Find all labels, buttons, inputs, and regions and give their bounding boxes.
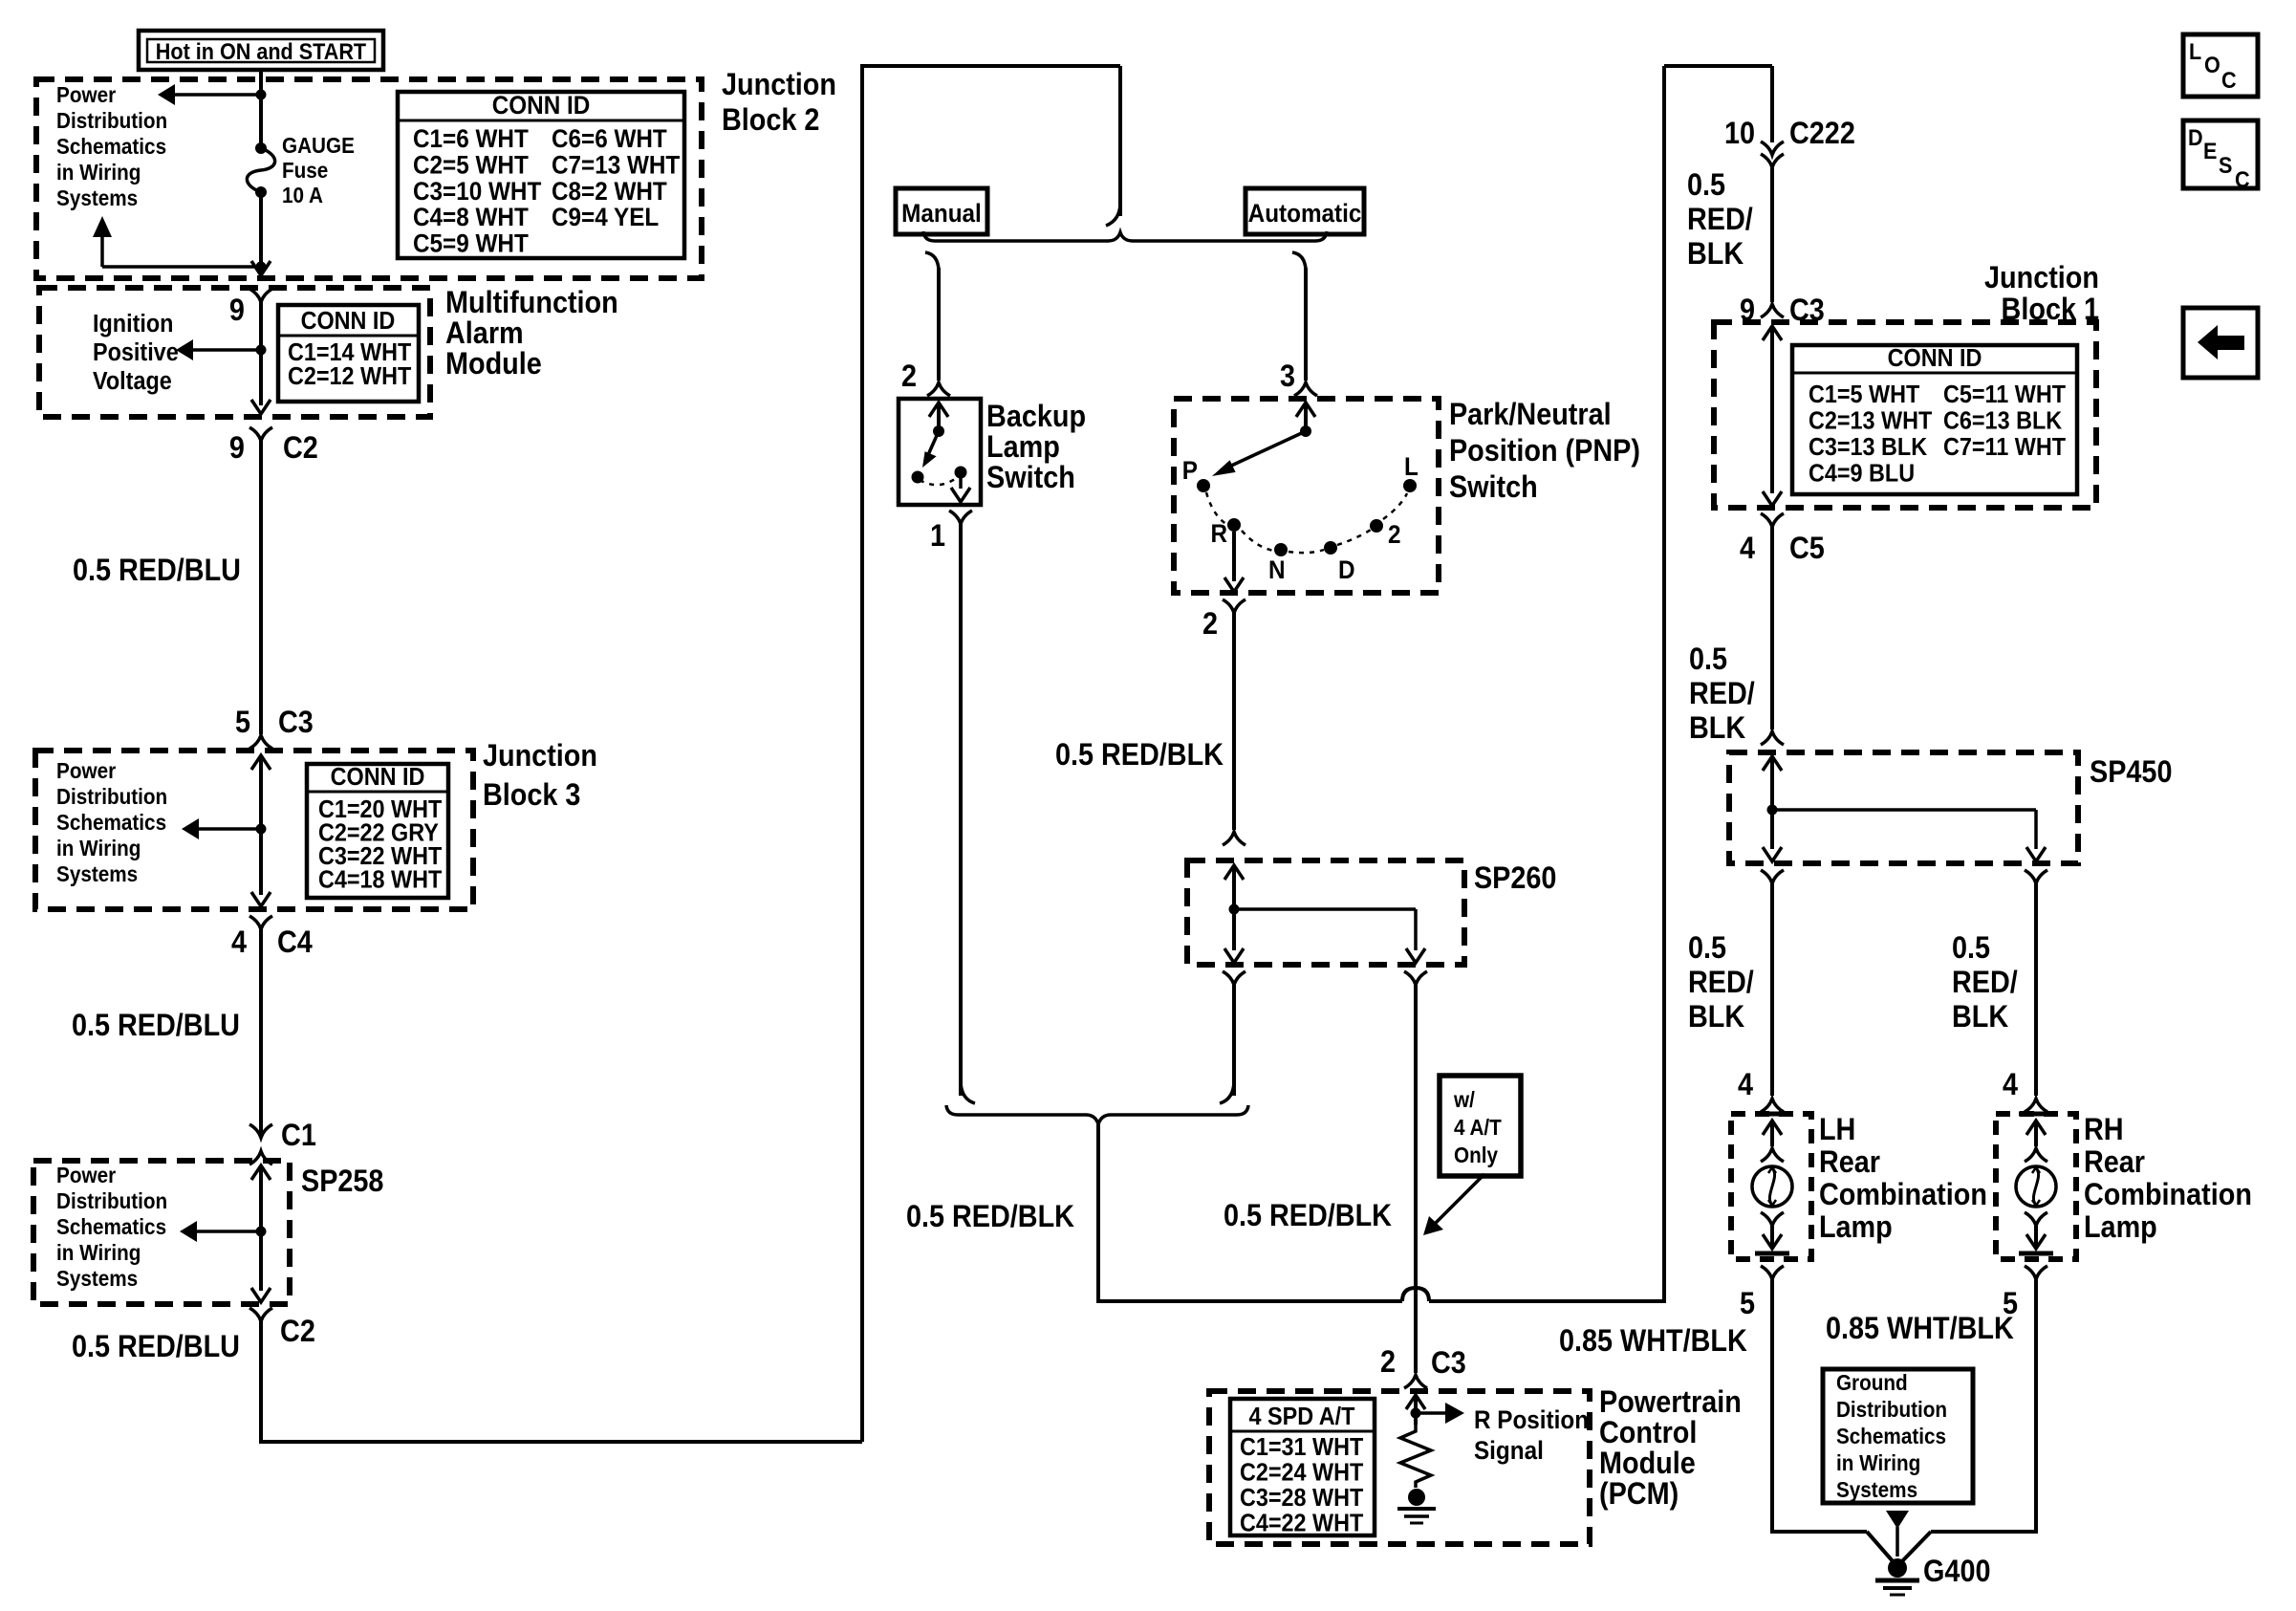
svg-text:2: 2: [901, 359, 917, 394]
svg-text:Combination: Combination: [1819, 1178, 1987, 1212]
svg-text:0.5 RED/BLK: 0.5 RED/BLK: [1224, 1199, 1392, 1233]
svg-text:C: C: [2221, 67, 2237, 93]
label box Manual: [896, 188, 987, 234]
svg-text:C7=11 WHT: C7=11 WHT: [1943, 434, 2066, 461]
multifunction alarm module dashed box: [39, 288, 430, 417]
label SP260: [1474, 861, 1556, 896]
svg-text:0.5 RED/BLK: 0.5 RED/BLK: [1055, 738, 1224, 773]
wire drop to option brace: [1106, 66, 1120, 226]
label 0.5 RED/BLK (right): [1224, 1199, 1392, 1233]
svg-text:RH: RH: [2084, 1113, 2124, 1147]
LH lamp bulb symbol: [1752, 1114, 1792, 1253]
PNP contact R: [1210, 518, 1241, 548]
svg-text:CONN ID: CONN ID: [301, 308, 396, 335]
wire C222 to C3: [1770, 167, 1774, 302]
svg-text:SP258: SP258: [301, 1165, 383, 1199]
svg-text:C4=9 BLU: C4=9 BLU: [1809, 460, 1915, 487]
splice SP450 dashed box: [1729, 752, 2078, 863]
svg-text:CONN ID: CONN ID: [331, 764, 425, 791]
backup switch output: [951, 472, 970, 502]
svg-text:N: N: [1268, 556, 1286, 584]
label Junction Block 1: [1984, 261, 2099, 327]
label SP450: [2090, 755, 2172, 790]
PNP contact L: [1403, 453, 1419, 492]
svg-text:C6=6 WHT: C6=6 WHT: [552, 125, 667, 153]
svg-text:Power: Power: [56, 758, 117, 783]
svg-text:Lamp: Lamp: [1819, 1210, 1893, 1245]
svg-text:0.5 RED/BLU: 0.5 RED/BLU: [72, 1009, 240, 1043]
svg-text:LH: LH: [1819, 1113, 1855, 1147]
svg-text:Block 1: Block 1: [2002, 293, 2099, 327]
backup switch right contact: [955, 467, 967, 479]
SP260 right output chevron: [1404, 971, 1427, 985]
node junction dot SP258: [256, 1227, 267, 1237]
SP258 exit arrow: [251, 1288, 271, 1302]
option split brace: [923, 231, 1327, 241]
connector 4 C4: [231, 916, 313, 959]
svg-text:(PCM): (PCM): [1599, 1477, 1679, 1512]
node junction dot lower JB2: [256, 262, 267, 272]
svg-text:C3: C3: [278, 706, 314, 740]
svg-text:C2: C2: [280, 1315, 315, 1349]
svg-text:Powertrain: Powertrain: [1599, 1385, 1742, 1420]
svg-text:C2=5 WHT: C2=5 WHT: [413, 151, 529, 179]
svg-text:C: C: [2235, 166, 2250, 192]
wire C2 to C3: [259, 441, 263, 734]
arrow to ignition positive voltage: [176, 339, 261, 360]
PNP dashed contact arc: [1206, 492, 1407, 553]
junction block 1 dashed box: [1714, 322, 2096, 508]
svg-text:C5=11 WHT: C5=11 WHT: [1943, 381, 2066, 408]
label LH Rear Combination Lamp: [1819, 1113, 1987, 1245]
node SP260 splice dot: [1229, 904, 1240, 915]
connector pin 5 RH lamp: [2003, 1266, 2047, 1320]
note Power Distribution Schematics (JB3): [56, 758, 167, 886]
label Junction Block 2: [722, 68, 836, 138]
CONN ID table alarm module: [278, 305, 419, 402]
label GAUGE Fuse 10 A: [282, 133, 355, 207]
label Park/Neutral Position (PNP) Switch: [1449, 398, 1640, 505]
svg-text:0.85 WHT/BLK: 0.85 WHT/BLK: [1559, 1324, 1747, 1359]
svg-text:Park/Neutral: Park/Neutral: [1449, 398, 1612, 432]
svg-text:1: 1: [930, 519, 945, 554]
svg-text:C5=9 WHT: C5=9 WHT: [413, 229, 529, 257]
connector 2 C3 PCM: [1380, 1345, 1466, 1388]
PNP contact P: [1182, 457, 1210, 492]
PNP R output wire: [1224, 532, 1244, 592]
svg-text:Distribution: Distribution: [56, 1188, 167, 1213]
wire SP260 right to PCM: [1414, 985, 1418, 1373]
connector pin 2 backup lamp switch: [901, 359, 950, 396]
svg-text:in Wiring: in Wiring: [56, 1240, 141, 1265]
wire C5 to SP450: [1770, 527, 1774, 729]
label RH Rear Combination Lamp: [2084, 1113, 2252, 1245]
svg-text:Distribution: Distribution: [56, 784, 167, 809]
svg-text:0.5: 0.5: [1952, 931, 1990, 966]
label SP258: [301, 1165, 383, 1199]
arrow up to Systems text: [93, 216, 261, 267]
svg-text:5: 5: [1740, 1287, 1755, 1321]
Hot in ON and START box: [139, 31, 383, 70]
node SP450 splice dot: [1767, 805, 1778, 816]
svg-text:C2=12 WHT: C2=12 WHT: [288, 363, 411, 390]
svg-text:Combination: Combination: [2084, 1178, 2252, 1212]
wire backup switch to merge brace: [961, 524, 975, 1103]
svg-text:Block 3: Block 3: [483, 778, 580, 813]
svg-text:Systems: Systems: [56, 185, 138, 210]
label 0.5 RED/BLU lower: [72, 1330, 240, 1364]
label G400: [1923, 1555, 1990, 1589]
svg-text:Distribution: Distribution: [1836, 1397, 1947, 1422]
svg-text:Systems: Systems: [1836, 1477, 1917, 1502]
connector 9 C2: [229, 427, 318, 465]
SP450 entry chevron: [1761, 731, 1784, 771]
connector 5 C3: [235, 706, 314, 749]
merge brace: [946, 1105, 1248, 1124]
svg-text:CONN ID: CONN ID: [492, 92, 591, 120]
svg-text:C1=6 WHT: C1=6 WHT: [413, 125, 529, 153]
svg-text:C4=18 WHT: C4=18 WHT: [318, 866, 442, 893]
svg-text:CONN ID: CONN ID: [1888, 345, 1982, 372]
SP450 right output chevron: [2025, 870, 2047, 883]
svg-text:E: E: [2203, 138, 2217, 163]
svg-text:C1=31 WHT: C1=31 WHT: [1240, 1434, 1363, 1461]
label 0.5 RED/BLU upper: [73, 554, 241, 588]
note Power Distribution Schematics (JB2): [56, 82, 167, 210]
svg-text:Rear: Rear: [1819, 1145, 1880, 1180]
svg-text:SP260: SP260: [1474, 861, 1556, 896]
SP450 internal wires: [1763, 756, 2046, 861]
svg-text:Junction: Junction: [722, 68, 836, 102]
label 0.85 WHT/BLK (RH): [1826, 1312, 2014, 1346]
connector pin 1 backup lamp switch: [930, 511, 972, 553]
4 SPD A/T table: [1230, 1399, 1375, 1537]
svg-text:Schematics: Schematics: [56, 1214, 166, 1239]
connector pin 4 LH lamp: [1738, 1068, 1784, 1112]
svg-text:D: D: [1338, 556, 1355, 584]
arrow R position signal: [1416, 1403, 1464, 1424]
arrow to power distribution SP258: [180, 1221, 261, 1242]
svg-text:4 SPD A/T: 4 SPD A/T: [1249, 1404, 1355, 1430]
PCM entry arrow: [1406, 1395, 1425, 1425]
svg-text:5: 5: [235, 706, 250, 740]
connector pin 3 PNP switch: [1280, 359, 1317, 396]
park/neutral position switch dashed box: [1174, 399, 1439, 593]
connector chevron into alarm module: [249, 289, 272, 302]
note Ignition Positive Voltage: [93, 311, 179, 395]
svg-text:0.5: 0.5: [1687, 168, 1725, 203]
label Powertrain Control Module (PCM): [1599, 1385, 1742, 1512]
svg-text:Switch: Switch: [1449, 470, 1538, 505]
label Multifunction Alarm Module: [445, 286, 618, 381]
svg-text:C4=8 WHT: C4=8 WHT: [413, 204, 529, 231]
svg-text:Block 2: Block 2: [722, 103, 819, 138]
JB3 exit arrow: [251, 892, 271, 906]
svg-text:0.5 RED/BLU: 0.5 RED/BLU: [72, 1330, 240, 1364]
svg-text:BLK: BLK: [1687, 237, 1744, 272]
arrow w/4AT to wire: [1423, 1174, 1484, 1235]
powertrain control module dashed box: [1209, 1391, 1590, 1544]
svg-text:S: S: [2219, 152, 2232, 178]
svg-text:4: 4: [2003, 1068, 2018, 1102]
wire PNP pin2 to SP260: [1232, 613, 1236, 830]
svg-text:2: 2: [1388, 521, 1401, 549]
svg-text:Power: Power: [56, 1163, 117, 1187]
wire top rail right: [1664, 66, 1772, 142]
SP260 left output chevron: [1223, 971, 1245, 985]
wire hop over PCM wire: [1402, 1288, 1429, 1301]
svg-text:SP450: SP450: [2090, 755, 2172, 790]
svg-text:Ignition: Ignition: [93, 311, 173, 337]
svg-text:0.5: 0.5: [1688, 931, 1726, 966]
wire manual branch: [937, 268, 941, 381]
svg-text:Systems: Systems: [56, 1266, 138, 1291]
connector 9 C3 JB1: [1740, 294, 1825, 328]
automatic branch hook: [1292, 252, 1306, 270]
PNP pivot contact: [1300, 425, 1311, 437]
svg-text:Module: Module: [445, 347, 542, 381]
svg-text:GAUGE: GAUGE: [282, 133, 355, 158]
svg-text:C3: C3: [1431, 1346, 1466, 1381]
svg-text:in Wiring: in Wiring: [1836, 1450, 1920, 1475]
label 0.5 RED/BLK (C222 wire): [1687, 168, 1753, 272]
wire SP450 to RH lamp: [2034, 883, 2038, 1096]
svg-text:Lamp: Lamp: [986, 430, 1060, 465]
label 0.5 RED/BLU middle: [72, 1009, 240, 1043]
backup lamp switch box: [899, 399, 981, 505]
svg-text:4 A/T: 4 A/T: [1454, 1115, 1502, 1140]
svg-text:C3=28 WHT: C3=28 WHT: [1240, 1485, 1363, 1512]
wire LH lamp to G400: [1772, 1279, 1894, 1562]
svg-text:C2=13 WHT: C2=13 WHT: [1809, 407, 1932, 434]
svg-text:9: 9: [229, 294, 245, 328]
svg-text:RED/: RED/: [1952, 966, 2018, 1000]
ground G400 symbol: [1875, 1558, 1919, 1595]
connector C1: [249, 1119, 316, 1153]
node junction dot alarm module: [256, 345, 267, 356]
CONN ID table JB2: [398, 92, 684, 258]
svg-text:BLK: BLK: [1689, 711, 1745, 746]
node junction dot JB3: [256, 824, 267, 835]
resistor (pull-down) inside PCM: [1400, 1425, 1431, 1488]
svg-text:w/: w/: [1453, 1087, 1475, 1112]
SP450 left output chevron: [1761, 870, 1784, 883]
CONN ID table JB1: [1792, 345, 2077, 494]
svg-text:2: 2: [1202, 607, 1218, 642]
svg-text:D: D: [2188, 124, 2203, 150]
label 0.5 RED/BLK (PNP wire): [1055, 738, 1224, 773]
svg-text:Junction: Junction: [483, 739, 597, 773]
svg-text:Ground: Ground: [1836, 1370, 1908, 1395]
svg-text:Automatic: Automatic: [1248, 200, 1362, 228]
svg-text:C6=13 BLK: C6=13 BLK: [1943, 407, 2062, 434]
ground distribution schematics box: [1823, 1369, 1973, 1503]
svg-text:Distribution: Distribution: [56, 108, 167, 133]
junction block 2 dashed box: [36, 79, 702, 278]
svg-text:C222: C222: [1789, 117, 1855, 151]
svg-text:P: P: [1182, 457, 1198, 485]
svg-text:C9=4 YEL: C9=4 YEL: [552, 204, 659, 231]
wire RH lamp to G400: [1901, 1279, 2036, 1562]
wire C2 down and right to riser: [261, 1321, 862, 1442]
DESC legend box: [2183, 120, 2258, 192]
svg-text:C3=13 BLK: C3=13 BLK: [1809, 434, 1927, 461]
manual branch hook: [925, 252, 939, 270]
connector 10 C222: [1724, 117, 1855, 167]
label 0.5 RED/BLK (left): [906, 1200, 1074, 1234]
PCM internal ground symbol: [1397, 1509, 1436, 1523]
svg-text:R Position: R Position: [1474, 1406, 1589, 1434]
svg-text:G400: G400: [1923, 1555, 1990, 1589]
wire merge brace down to bottom rail: [1098, 1124, 1402, 1301]
svg-text:Lamp: Lamp: [2084, 1210, 2157, 1245]
wire SP260 left to merge brace: [1220, 985, 1234, 1103]
svg-text:3: 3: [1280, 359, 1295, 394]
svg-text:Position (PNP): Position (PNP): [1449, 434, 1640, 468]
svg-text:C4=22 WHT: C4=22 WHT: [1240, 1510, 1363, 1536]
svg-text:0.5: 0.5: [1689, 642, 1727, 677]
arrow to power distribution: [158, 84, 261, 105]
svg-text:Switch: Switch: [986, 461, 1075, 495]
arrow to power distribution JB3: [182, 818, 261, 839]
svg-text:BLK: BLK: [1952, 1000, 2008, 1034]
JB1 internal wire: [1763, 326, 1782, 506]
svg-text:0.5 RED/BLU: 0.5 RED/BLU: [73, 554, 241, 588]
svg-text:Fuse: Fuse: [282, 158, 328, 183]
label 0.85 WHT/BLK (LH): [1559, 1324, 1747, 1359]
wire SP450 to LH lamp: [1770, 883, 1774, 1096]
PNP selector arm: [1212, 431, 1306, 476]
svg-text:Hot in ON and START: Hot in ON and START: [156, 38, 366, 64]
svg-text:RED/: RED/: [1688, 966, 1754, 1000]
PNP contact D: [1324, 541, 1355, 584]
svg-text:2: 2: [1380, 1345, 1396, 1380]
svg-text:RED/: RED/: [1689, 677, 1755, 711]
svg-text:4: 4: [1740, 532, 1755, 566]
wire hot box to fuse: [259, 70, 263, 147]
connector C2 lower: [249, 1308, 315, 1348]
svg-text:0.85 WHT/BLK: 0.85 WHT/BLK: [1826, 1312, 2014, 1346]
svg-text:Schematics: Schematics: [56, 810, 166, 835]
label Backup Lamp Switch: [986, 400, 1086, 495]
JB3 entry arrow: [251, 755, 271, 895]
LH rear combination lamp dashed box: [1731, 1114, 1811, 1259]
svg-text:Junction: Junction: [1984, 261, 2099, 295]
svg-text:in Wiring: in Wiring: [56, 836, 141, 860]
label Junction Block 3: [483, 739, 597, 813]
wire C4 to C1: [259, 929, 263, 1136]
svg-text:Schematics: Schematics: [56, 134, 166, 159]
svg-text:4: 4: [1738, 1068, 1753, 1102]
svg-text:Voltage: Voltage: [93, 368, 172, 395]
svg-text:10: 10: [1724, 117, 1755, 151]
svg-text:C4: C4: [277, 925, 313, 960]
node junction dot upper JB2: [256, 90, 267, 100]
svg-text:Systems: Systems: [56, 861, 138, 886]
PNP contact 2: [1370, 519, 1400, 549]
svg-text:BLK: BLK: [1688, 1000, 1744, 1034]
svg-text:C1: C1: [281, 1119, 316, 1153]
label 0.5 RED/BLK (RH): [1952, 931, 2018, 1034]
junction block 3 dashed box: [35, 751, 473, 909]
svg-text:R: R: [1210, 520, 1227, 548]
svg-text:RED/: RED/: [1687, 203, 1753, 237]
backup switch dashed throw arc: [920, 476, 959, 485]
connector 4 C5: [1740, 513, 1825, 565]
svg-text:Rear: Rear: [2084, 1145, 2145, 1180]
backup switch entry arrow: [929, 403, 948, 431]
svg-text:Signal: Signal: [1474, 1437, 1544, 1465]
svg-text:Multifunction: Multifunction: [445, 286, 618, 320]
label R Position Signal: [1474, 1406, 1589, 1465]
SP260 entry chevron: [1223, 832, 1245, 880]
PNP entry arrow: [1296, 403, 1315, 431]
svg-text:C5: C5: [1789, 532, 1825, 566]
wire fuse down: [259, 192, 263, 267]
svg-text:Backup: Backup: [986, 400, 1086, 434]
svg-text:Positive: Positive: [93, 339, 179, 366]
PNP contact N: [1268, 543, 1288, 584]
svg-text:Schematics: Schematics: [1836, 1424, 1946, 1448]
arrow ground box to G400: [1886, 1511, 1909, 1557]
SP258 entry chevron: [249, 1151, 272, 1291]
LOC legend box: [2183, 34, 2258, 97]
svg-text:10 A: 10 A: [282, 183, 323, 207]
label box Automatic: [1245, 188, 1364, 234]
label 0.5 RED/BLK (C5 wire): [1689, 642, 1755, 746]
backup switch arm: [922, 431, 939, 468]
svg-text:O: O: [2204, 52, 2220, 77]
svg-text:Module: Module: [1599, 1447, 1696, 1481]
svg-text:Manual: Manual: [901, 200, 982, 228]
back arrow legend box: [2183, 308, 2258, 378]
svg-text:L: L: [1404, 453, 1419, 481]
svg-text:in Wiring: in Wiring: [56, 160, 141, 185]
connector pin 5 LH lamp: [1740, 1266, 1784, 1320]
label 0.5 RED/BLK (LH): [1688, 931, 1754, 1034]
backup switch pivot contact: [933, 425, 944, 437]
svg-text:C3=10 WHT: C3=10 WHT: [413, 178, 542, 206]
wire inside alarm module: [259, 302, 263, 405]
fuse GAUGE 10A symbol: [247, 142, 274, 198]
w/ 4 A/T Only box: [1440, 1076, 1521, 1176]
note Power Distribution Schematics (SP258): [56, 1163, 167, 1291]
connector pin 4 RH lamp: [2003, 1068, 2047, 1112]
wire bottom rail to right riser: [1429, 66, 1664, 1301]
wire automatic branch: [1304, 268, 1308, 381]
backup switch left contact: [912, 471, 924, 484]
svg-text:C8=2 WHT: C8=2 WHT: [552, 178, 667, 206]
svg-text:C1=5 WHT: C1=5 WHT: [1809, 381, 1919, 408]
connector pin 2 PNP: [1202, 599, 1245, 641]
riser wire up to top rail: [862, 66, 1120, 1442]
alarm module exit arrow: [251, 400, 271, 414]
svg-text:C2=24 WHT: C2=24 WHT: [1240, 1459, 1363, 1486]
pin 9 label (module top): [229, 294, 245, 328]
svg-text:9: 9: [229, 431, 245, 466]
svg-text:0.5 RED/BLK: 0.5 RED/BLK: [906, 1200, 1074, 1234]
RH rear combination lamp dashed box: [1996, 1114, 2076, 1259]
RH lamp bulb symbol: [2016, 1114, 2056, 1253]
CONN ID table JB3: [307, 764, 448, 898]
wire to JB2 exit: [251, 261, 271, 275]
splice SP258 dashed box: [33, 1161, 290, 1304]
svg-text:Power: Power: [56, 82, 117, 107]
SP260 internal wires: [1224, 865, 1425, 963]
svg-text:Alarm: Alarm: [445, 316, 524, 351]
svg-text:Only: Only: [1454, 1143, 1499, 1167]
ground dot inside PCM: [1408, 1489, 1425, 1506]
